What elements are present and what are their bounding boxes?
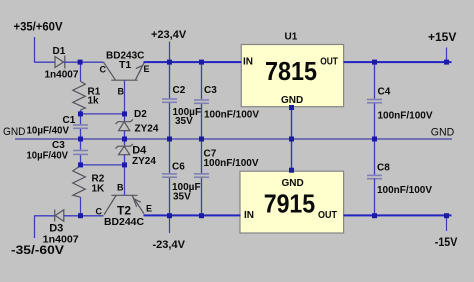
svg-text:D2: D2 (134, 109, 147, 120)
svg-text:C4: C4 (378, 87, 391, 98)
svg-text:GND: GND (3, 126, 26, 138)
node +23,4V/C2 junction (167, 60, 172, 65)
regulator U2 7915 body (240, 171, 344, 233)
wire -35V input to D3 cathode (34, 215, 55, 217)
wire D4 bottom (124, 155, 126, 165)
svg-text:C8: C8 (377, 163, 390, 174)
node C4/C8 GND junction (372, 137, 377, 142)
diode D3 (55, 210, 64, 222)
capacitor C6 (162, 173, 177, 178)
svg-text:BD244C: BD244C (104, 217, 144, 228)
node C2/GND junction (167, 137, 172, 142)
node U1 GND pin (289, 105, 294, 110)
resistor R2 (73, 166, 86, 198)
node C3 middle top junction (199, 60, 204, 65)
wire +35V input to D1 anode (34, 61, 55, 63)
capacitor C1 (73, 124, 88, 129)
node C6 bottom junction (167, 213, 172, 218)
svg-text:10µF/40V: 10µF/40V (27, 150, 69, 161)
svg-text:C2: C2 (173, 85, 186, 96)
svg-text:7915: 7915 (264, 189, 316, 219)
wire C3 middle top (201, 62, 203, 99)
zener diode D4 (116, 144, 134, 155)
node D2/D4 GND junction (122, 137, 127, 142)
wire D3 anode to T2 collector, node at x=80 (64, 215, 104, 217)
wire rail U2 OUT to -15V (344, 214, 452, 216)
wire +35V input vertical stub (34, 37, 36, 62)
svg-text:OUT: OUT (318, 210, 337, 221)
svg-text:E: E (146, 204, 152, 214)
svg-text:C1: C1 (63, 115, 76, 126)
svg-text:OUT: OUT (320, 57, 338, 68)
wire R1 bottom (80, 110, 82, 114)
node regulators GND junction (289, 137, 294, 142)
wire C6 top (169, 139, 171, 173)
svg-text:B: B (117, 183, 124, 193)
node +15V terminal (444, 60, 449, 65)
wire ground rail to U2 GND pin (291, 139, 293, 171)
resistor R1 (73, 81, 86, 110)
wire C2 top (169, 62, 171, 98)
wire +15V terminal stub (446, 48, 448, 63)
svg-text:T1: T1 (119, 59, 131, 71)
wire C1 bottom (80, 129, 82, 139)
wire C8 top (374, 139, 376, 175)
capacitor C3 middle (194, 99, 209, 104)
node C4 top junction (372, 60, 377, 65)
wire R2 bottom (80, 197, 82, 216)
svg-text:C3: C3 (204, 85, 217, 96)
svg-text:U1: U1 (285, 32, 298, 43)
svg-text:ZY24: ZY24 (132, 156, 156, 167)
svg-text:35V: 35V (173, 192, 191, 203)
svg-text:+35/+60V: +35/+60V (14, 20, 63, 34)
node U2 GND pin (289, 168, 294, 173)
svg-text:1k: 1k (88, 96, 100, 107)
node D3/R2/T2 junction (78, 213, 83, 218)
wire -15V terminal stub (446, 216, 448, 231)
wire D4 top (124, 139, 126, 146)
svg-text:E: E (144, 64, 150, 74)
node base T1/D2 junction (122, 111, 127, 116)
wire C1 top (80, 114, 82, 124)
wire C7 top (201, 139, 203, 173)
svg-text:100nF/100V: 100nF/100V (377, 185, 432, 196)
svg-text:D1: D1 (53, 46, 66, 57)
svg-text:-35/-60V: -35/-60V (11, 245, 64, 257)
svg-text:+23,4V: +23,4V (151, 29, 187, 41)
node D1/R1 junction (78, 60, 83, 65)
svg-text:-15V: -15V (435, 237, 458, 249)
svg-text:C6: C6 (172, 162, 185, 173)
svg-text:7815: 7815 (265, 56, 317, 86)
wire D2 top (124, 114, 126, 121)
wire D1 cathode to T1 collector, node at x=80 (64, 61, 104, 63)
svg-text:GND: GND (282, 178, 304, 189)
wire -35V input vertical stub (34, 216, 36, 238)
diode D1 (55, 56, 65, 69)
node C3left/R2 junction (78, 162, 83, 167)
wire U1 GND pin to ground rail (291, 108, 293, 140)
zener diode D2 (116, 119, 134, 130)
wire node row R1/C1 to T1 base column (80, 113, 125, 115)
GND rail (15, 138, 452, 140)
capacitor C2 (162, 98, 177, 103)
svg-text:T2: T2 (117, 203, 131, 217)
wire C8 bottom (374, 179, 376, 216)
svg-text:-23,4V: -23,4V (153, 239, 186, 251)
capacitor C7 (194, 173, 209, 178)
svg-text:1K: 1K (92, 184, 106, 195)
svg-text:C: C (100, 65, 107, 75)
svg-text:+15V: +15V (428, 30, 456, 44)
node C1/GND junction (78, 137, 83, 142)
wire -23,4V label stub (169, 216, 171, 233)
svg-text:100nF/100V: 100nF/100V (378, 111, 433, 122)
wire C4 top (374, 62, 376, 99)
svg-text:ZY24: ZY24 (135, 124, 159, 135)
svg-text:IN: IN (243, 57, 253, 68)
svg-text:35V: 35V (175, 116, 193, 127)
wire rail T2 emitter to U2 IN (-23,4V rail) (144, 214, 241, 216)
wire C3 left bottom (80, 155, 82, 165)
svg-text:C: C (96, 206, 103, 216)
wire C2 bottom (169, 103, 171, 139)
svg-text:GND: GND (431, 127, 455, 139)
svg-text:100nF/100V: 100nF/100V (204, 110, 259, 121)
svg-text:GND: GND (281, 95, 303, 106)
node C8 bottom junction (372, 213, 377, 218)
wire C4 bottom (374, 104, 376, 140)
svg-text:IN: IN (244, 210, 254, 221)
svg-text:100nF/100V: 100nF/100V (204, 158, 259, 169)
wire D2 bottom (124, 131, 126, 139)
capacitor C8 (367, 175, 382, 180)
wire T1 base vertical (124, 81, 126, 114)
node R1/C1 junction (78, 111, 83, 116)
wire +23,4V label stub (169, 42, 171, 63)
regulator U1 7815 body (241, 45, 343, 107)
svg-text:1n4007: 1n4007 (43, 233, 79, 245)
node -15V terminal (444, 213, 449, 218)
node D4/R2 row junction (122, 162, 127, 167)
capacitor C4 (367, 99, 382, 104)
wire node row C3/D4 to R2 (80, 164, 125, 166)
wire C3 left top (80, 139, 82, 150)
node C7 bottom junction (199, 213, 204, 218)
wire C3 middle bottom (201, 104, 203, 139)
svg-text:10µF/40V: 10µF/40V (27, 126, 70, 137)
wire R1 top branch (80, 62, 82, 82)
wire C6 bottom (169, 178, 171, 215)
wire rail U1 OUT to +15V (344, 61, 452, 63)
svg-text:1n4007: 1n4007 (45, 70, 79, 81)
node C3/GND junction (199, 137, 204, 142)
svg-text:D4: D4 (132, 145, 147, 157)
capacitor C3 left (73, 150, 88, 156)
wire C7 bottom (201, 178, 203, 215)
svg-text:B: B (118, 87, 125, 97)
transistor T2 BD244C (104, 165, 144, 215)
wire rail T1 emitter to U1 IN (+23,4V rail) (144, 61, 242, 63)
transistor T1 BD243C (104, 62, 145, 80)
